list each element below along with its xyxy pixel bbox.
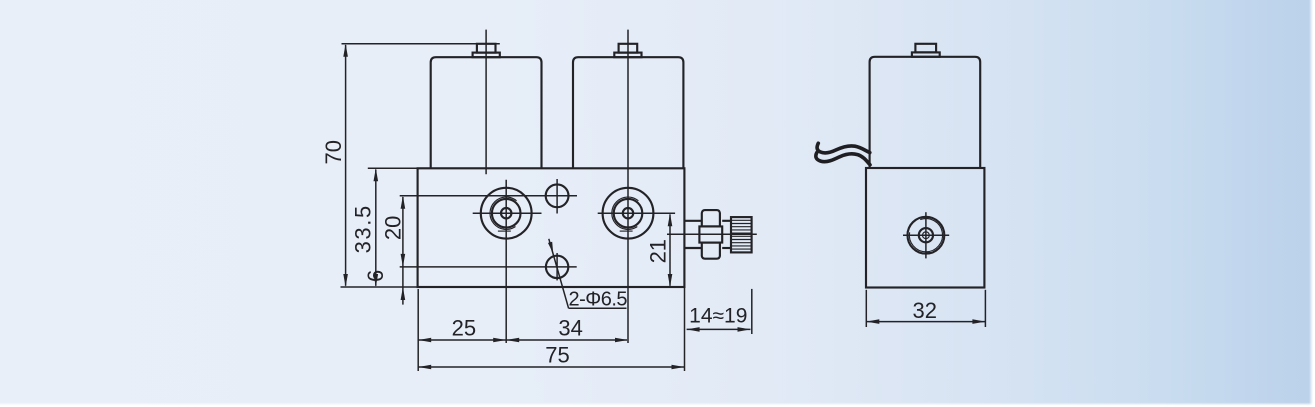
port P2 thread major arc <box>612 197 639 229</box>
extension line at block bottom left <box>341 286 418 288</box>
port P1 counterbore circle <box>481 188 532 239</box>
leader underline <box>569 307 627 309</box>
port P1 thread major arc <box>490 197 517 229</box>
dimension 21 line <box>669 214 671 285</box>
port P2 bore circle <box>623 208 633 218</box>
port P2 horizontal centerline <box>598 212 675 214</box>
svg-text:2-Φ6.5: 2-Φ6.5 <box>569 289 628 311</box>
svg-text:14≈19: 14≈19 <box>689 304 747 327</box>
dimension 75 line <box>418 366 684 368</box>
coil cap (side view) <box>912 44 940 57</box>
dimension 33.5 line <box>375 170 377 286</box>
mounting hole (upper) circle <box>546 184 569 207</box>
side port outer circle <box>908 217 945 254</box>
port P2 counterbore circle <box>603 188 654 239</box>
fitting centerline <box>667 233 757 235</box>
dimension 21 arrows <box>668 213 673 226</box>
port P1 thread minor circle <box>492 199 521 228</box>
svg-text:75: 75 <box>545 342 569 367</box>
side port middle circle <box>919 228 933 242</box>
dimension 32 line <box>866 321 985 323</box>
dimension 25-34 line <box>418 339 627 341</box>
svg-text:32: 32 <box>913 298 937 323</box>
port P1 horizontal centerline <box>473 212 542 214</box>
port P1 vertical centerline / extension <box>505 180 507 343</box>
port P1 bore circle <box>501 208 511 218</box>
fitting pipe stub <box>684 221 702 248</box>
side port thread arc <box>909 219 942 252</box>
manifold block (front view) <box>418 168 685 287</box>
extension line upper hole center (20) <box>400 195 577 197</box>
side port horizontal centerline <box>903 234 949 236</box>
svg-text:70: 70 <box>321 140 346 164</box>
coil B terminal cap <box>614 44 641 57</box>
fitting hex nut <box>699 210 722 259</box>
dimension 25 arrows <box>418 338 431 343</box>
leader arrowhead <box>548 242 553 254</box>
port P2 / coil B vertical centerline <box>627 30 629 343</box>
coil A terminal cap <box>473 44 500 57</box>
coil A centerline <box>485 30 487 175</box>
extension line block left bottom (25/75) <box>417 289 419 371</box>
fitting stub 2 <box>722 221 731 248</box>
mounting hole (lower) circle <box>546 256 568 278</box>
valve body block (side view) <box>866 168 984 288</box>
svg-text:6: 6 <box>363 270 388 282</box>
lead wire 2 <box>816 153 870 165</box>
mounting hole (upper) vertical centerline <box>556 179 558 214</box>
dimension 6 arrow <box>401 287 406 300</box>
coil body (side view) <box>870 57 981 168</box>
extension line at block top left (33.5) <box>368 167 418 169</box>
svg-text:20: 20 <box>381 216 406 240</box>
solenoid coil A body (front view) <box>431 57 542 168</box>
dimension 70 arrows <box>343 44 348 57</box>
lead wire 1 <box>817 143 870 153</box>
dimension 34 arrows <box>506 338 519 343</box>
port P1 thread runout <box>498 230 511 232</box>
svg-text:21: 21 <box>646 239 671 263</box>
extension line side block left (32) <box>865 290 867 327</box>
dimension 20 arrows <box>401 196 406 209</box>
extension line block right bottom (75/14) <box>684 287 686 371</box>
svg-text:34: 34 <box>558 316 582 341</box>
extension line knob right (14-19) <box>751 289 753 334</box>
svg-text:33.5: 33.5 <box>350 204 375 253</box>
port P2 thread minor circle <box>614 199 643 228</box>
svg-text:25: 25 <box>452 316 476 341</box>
solenoid coil B body (front view) <box>573 57 683 168</box>
dimension 14-19 line <box>687 328 751 330</box>
side port bore circle <box>923 232 930 239</box>
side port vertical centerline <box>925 212 927 258</box>
dimension 33.5 arrows <box>374 168 379 181</box>
side port thread runout <box>927 252 934 254</box>
extension line lower hole center (6) <box>400 266 577 268</box>
dimension 20 line <box>402 197 404 305</box>
mounting hole (lower) vertical centerline <box>556 253 558 280</box>
extension line at cap top (70) <box>342 43 500 45</box>
dimension 70 line <box>345 45 347 286</box>
port P2 thread runout <box>620 230 633 232</box>
dimension 14-19 arrows <box>687 327 700 332</box>
extension line side block right (32) <box>984 290 986 327</box>
dimension 75 arrows <box>418 365 431 370</box>
fitting knurled knob <box>731 217 752 252</box>
dimension 32 arrows <box>866 319 879 324</box>
leader line to lower hole <box>549 239 569 308</box>
